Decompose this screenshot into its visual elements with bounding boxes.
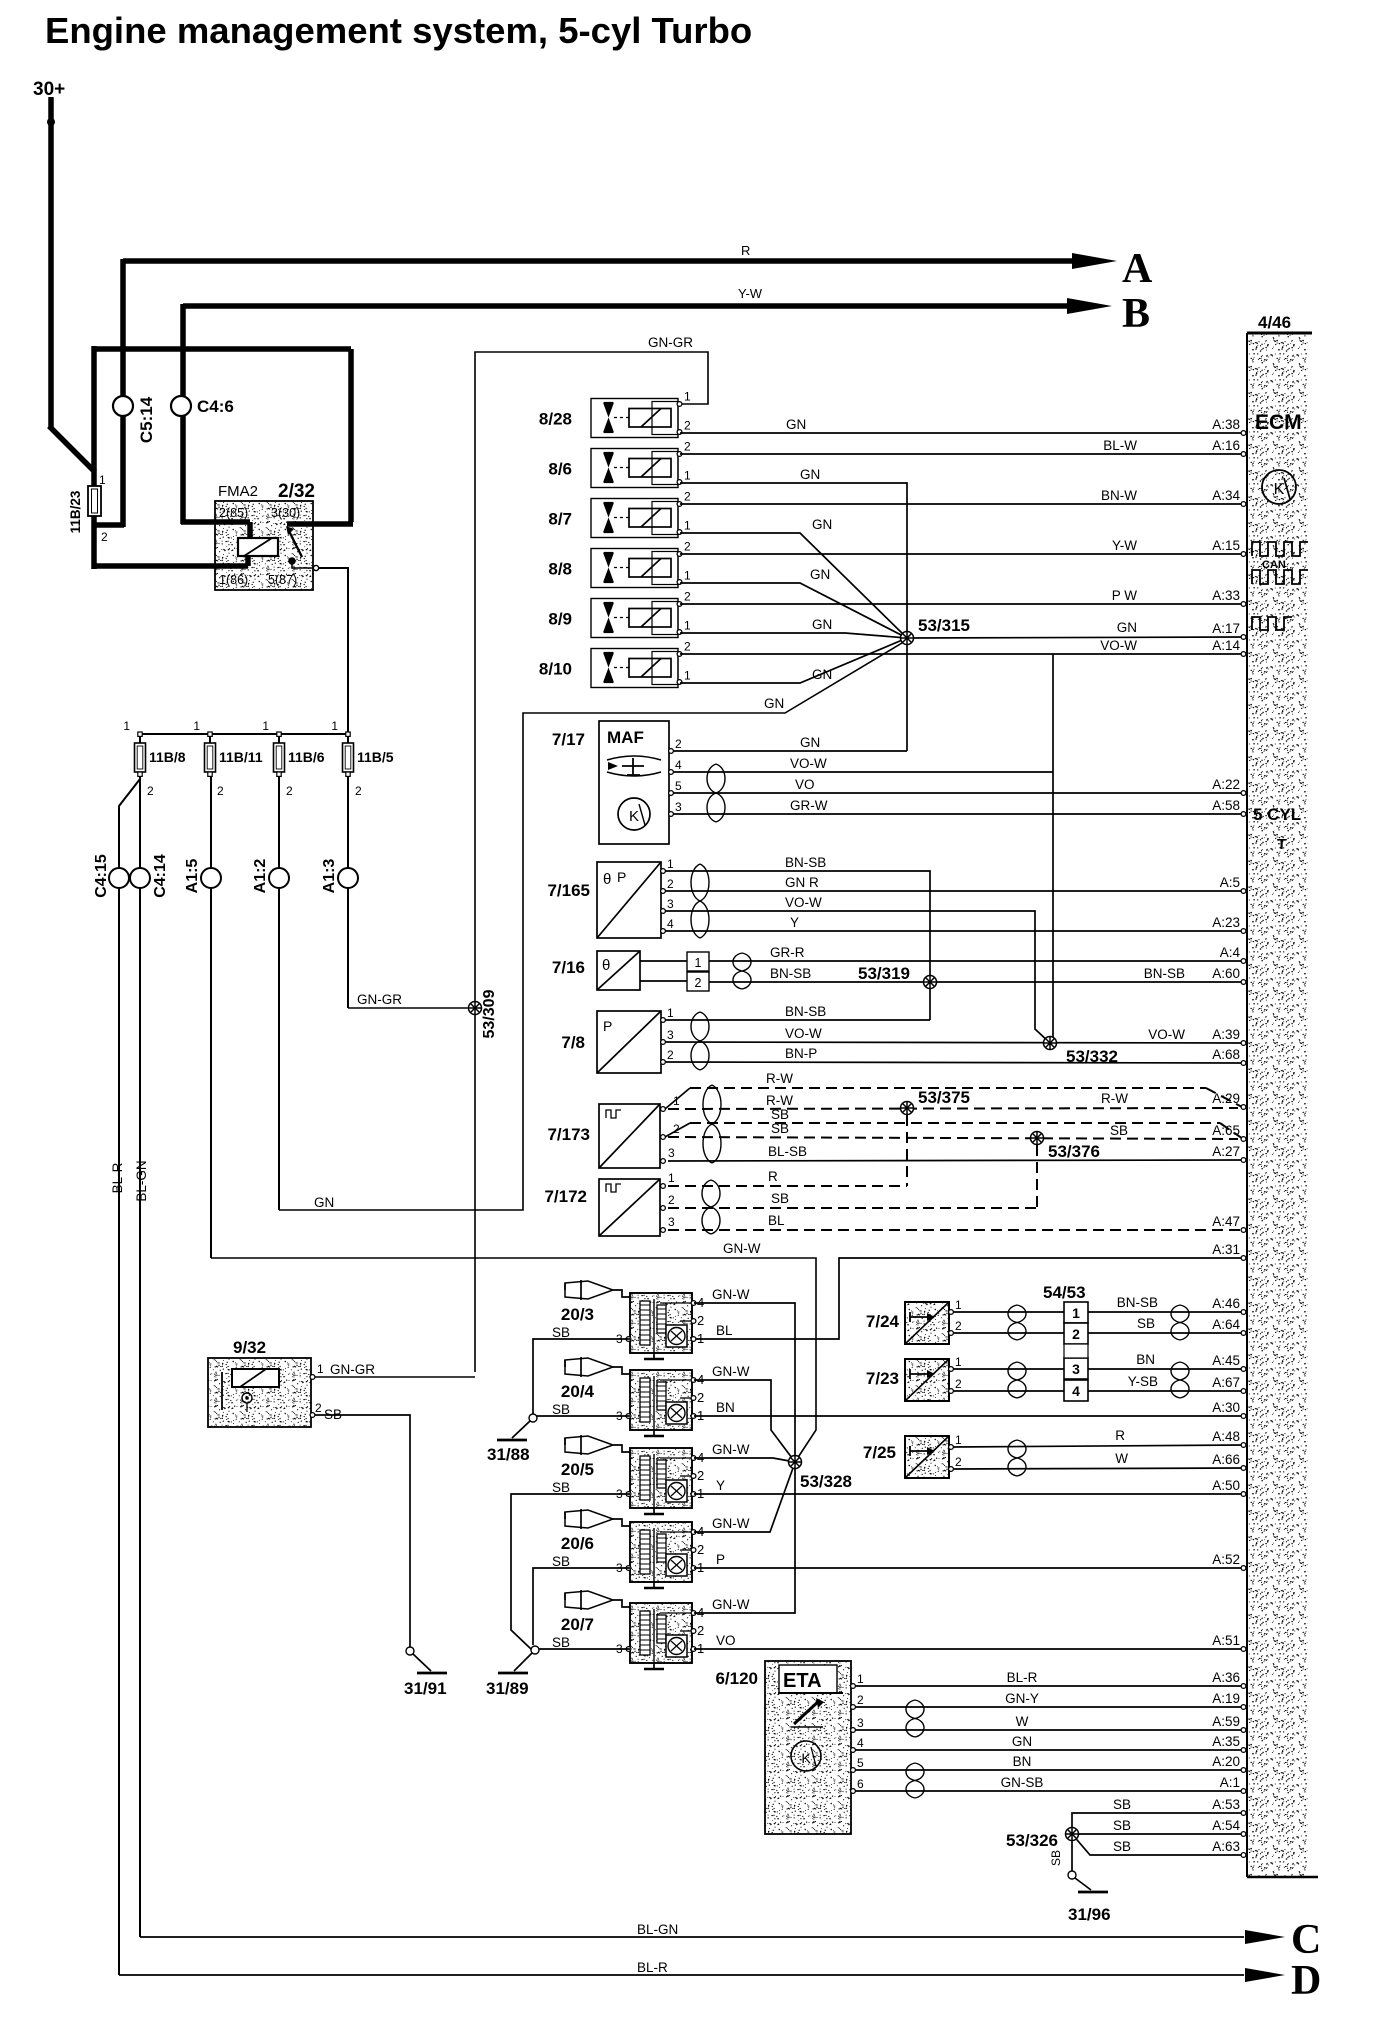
- svg-text:2: 2: [697, 1313, 704, 1328]
- svg-text:1: 1: [1072, 1305, 1080, 1321]
- svg-text:2: 2: [684, 419, 691, 433]
- svg-text:2: 2: [101, 530, 108, 544]
- svg-text:GN-GR: GN-GR: [357, 992, 402, 1007]
- svg-text:11B/8: 11B/8: [149, 749, 186, 765]
- svg-text:Y: Y: [790, 915, 799, 930]
- svg-text:GN: GN: [314, 1195, 334, 1210]
- svg-text:SB: SB: [552, 1554, 570, 1569]
- svg-text:5(87): 5(87): [268, 573, 297, 587]
- svg-text:GN-SB: GN-SB: [1001, 1775, 1044, 1790]
- svg-text:7/173: 7/173: [547, 1125, 590, 1144]
- svg-text:Y-W: Y-W: [738, 286, 763, 301]
- svg-text:53/319: 53/319: [858, 964, 910, 983]
- svg-text:GN: GN: [1012, 1734, 1032, 1749]
- svg-text:A:59: A:59: [1212, 1714, 1240, 1729]
- svg-text:BN-SB: BN-SB: [785, 1004, 826, 1019]
- svg-text:11B/6: 11B/6: [288, 749, 325, 765]
- svg-text:W: W: [1115, 1451, 1128, 1466]
- svg-text:P: P: [716, 1552, 725, 1567]
- svg-text:A:66: A:66: [1212, 1452, 1240, 1467]
- svg-text:C4:6: C4:6: [197, 397, 234, 416]
- svg-text:C: C: [1291, 1917, 1321, 1963]
- svg-text:ECM: ECM: [1255, 411, 1302, 434]
- svg-text:BN-SB: BN-SB: [770, 966, 811, 981]
- svg-text:VO-W: VO-W: [790, 756, 827, 771]
- svg-text:11B/5: 11B/5: [357, 749, 394, 765]
- svg-text:31/89: 31/89: [486, 1679, 529, 1698]
- svg-text:2: 2: [217, 784, 224, 798]
- svg-text:BL-R: BL-R: [1007, 1670, 1038, 1685]
- svg-text:BL: BL: [716, 1323, 733, 1338]
- svg-text:53/326: 53/326: [1006, 1831, 1058, 1850]
- svg-text:2: 2: [697, 1542, 704, 1557]
- svg-text:54/53: 54/53: [1043, 1283, 1086, 1302]
- svg-text:53/315: 53/315: [918, 616, 970, 635]
- svg-text:3: 3: [675, 800, 682, 814]
- svg-text:SB: SB: [1113, 1818, 1131, 1833]
- svg-text:VO-W: VO-W: [1100, 638, 1137, 653]
- svg-text:3: 3: [1072, 1361, 1080, 1377]
- svg-text:A:36: A:36: [1212, 1670, 1240, 1685]
- svg-text:20/3: 20/3: [561, 1305, 594, 1324]
- svg-text:31/91: 31/91: [404, 1679, 447, 1698]
- svg-text:A:31: A:31: [1212, 1242, 1240, 1257]
- svg-text:BL-W: BL-W: [1103, 438, 1137, 453]
- svg-text:1: 1: [331, 719, 338, 733]
- svg-text:4/46: 4/46: [1258, 313, 1291, 332]
- svg-text:SB: SB: [771, 1191, 789, 1206]
- svg-text:Y: Y: [716, 1478, 725, 1493]
- svg-text:3: 3: [668, 1215, 675, 1229]
- svg-text:A:1: A:1: [1220, 1775, 1240, 1790]
- svg-text:R: R: [1115, 1428, 1125, 1443]
- svg-text:4: 4: [667, 917, 674, 931]
- svg-text:3(30): 3(30): [271, 506, 300, 520]
- svg-text:1: 1: [667, 1006, 674, 1020]
- svg-text:2: 2: [697, 1623, 704, 1638]
- svg-text:GN: GN: [812, 517, 832, 532]
- svg-text:1: 1: [697, 1331, 704, 1346]
- svg-text:1: 1: [667, 857, 674, 871]
- svg-text:A1:5: A1:5: [184, 859, 201, 894]
- svg-text:BN-SB: BN-SB: [785, 855, 826, 870]
- svg-text:SB: SB: [771, 1107, 789, 1122]
- svg-text:1: 1: [955, 1298, 962, 1312]
- svg-text:GN: GN: [810, 567, 830, 582]
- svg-text:8/28: 8/28: [539, 410, 572, 429]
- svg-text:R-W: R-W: [766, 1093, 793, 1108]
- svg-text:8/8: 8/8: [548, 560, 572, 579]
- svg-text:A:33: A:33: [1212, 588, 1240, 603]
- svg-text:MAF: MAF: [607, 728, 644, 747]
- svg-text:20/4: 20/4: [561, 1382, 595, 1401]
- svg-text:VO: VO: [716, 1633, 736, 1648]
- svg-text:A:48: A:48: [1212, 1429, 1240, 1444]
- svg-text:Y-W: Y-W: [1112, 538, 1137, 553]
- svg-text:1: 1: [955, 1433, 962, 1447]
- svg-text:GN: GN: [786, 417, 806, 432]
- svg-text:20/7: 20/7: [561, 1615, 594, 1634]
- svg-text:GN-W: GN-W: [712, 1516, 750, 1531]
- svg-text:D: D: [1291, 1958, 1321, 2004]
- svg-text:7/172: 7/172: [544, 1187, 587, 1206]
- svg-text:BL-GN: BL-GN: [134, 1160, 149, 1201]
- svg-text:6: 6: [857, 1777, 864, 1791]
- svg-text:C4:15: C4:15: [93, 854, 110, 898]
- svg-text:1: 1: [317, 1362, 324, 1376]
- svg-text:20/6: 20/6: [561, 1534, 594, 1553]
- svg-text:SB: SB: [1113, 1797, 1131, 1812]
- svg-text:2: 2: [667, 1048, 674, 1062]
- svg-text:GN: GN: [800, 735, 820, 750]
- svg-text:30+: 30+: [33, 79, 65, 100]
- svg-text:2: 2: [684, 640, 691, 654]
- svg-text:GN: GN: [812, 667, 832, 682]
- svg-text:2: 2: [286, 784, 293, 798]
- svg-text:GN-W: GN-W: [723, 1241, 761, 1256]
- svg-text:A:15: A:15: [1212, 538, 1240, 553]
- svg-text:K: K: [801, 1750, 811, 1766]
- svg-text:1: 1: [695, 956, 702, 970]
- svg-text:A:35: A:35: [1212, 1734, 1240, 1749]
- svg-text:A:58: A:58: [1212, 798, 1240, 813]
- svg-text:GN: GN: [764, 696, 784, 711]
- svg-text:1: 1: [193, 719, 200, 733]
- svg-text:A:63: A:63: [1212, 1839, 1240, 1854]
- svg-text:A:22: A:22: [1212, 777, 1240, 792]
- svg-text:2: 2: [355, 784, 362, 798]
- svg-text:A:60: A:60: [1212, 966, 1240, 981]
- svg-text:5 CYL: 5 CYL: [1253, 805, 1301, 824]
- svg-text:GN-W: GN-W: [712, 1364, 750, 1379]
- svg-text:5: 5: [857, 1756, 864, 1770]
- svg-text:GN: GN: [812, 617, 832, 632]
- svg-text:2: 2: [675, 737, 682, 751]
- svg-text:2: 2: [697, 1390, 704, 1405]
- svg-text:A:20: A:20: [1212, 1754, 1240, 1769]
- svg-text:SB: SB: [1110, 1123, 1128, 1138]
- svg-text:2: 2: [667, 877, 674, 891]
- svg-text:BN: BN: [1013, 1754, 1032, 1769]
- svg-text:7/24: 7/24: [866, 1312, 900, 1331]
- svg-text:1: 1: [684, 519, 691, 533]
- svg-text:A:53: A:53: [1212, 1797, 1240, 1812]
- svg-text:2: 2: [684, 590, 691, 604]
- svg-text:R: R: [768, 1169, 778, 1184]
- svg-text:2: 2: [955, 1319, 962, 1333]
- svg-text:SB: SB: [552, 1635, 570, 1650]
- svg-text:2: 2: [697, 1468, 704, 1483]
- svg-text:20/5: 20/5: [561, 1460, 594, 1479]
- svg-text:A:29: A:29: [1212, 1091, 1240, 1106]
- svg-text:ETA: ETA: [783, 1670, 822, 1692]
- svg-text:A:67: A:67: [1212, 1375, 1240, 1390]
- svg-text:A:16: A:16: [1212, 438, 1240, 453]
- svg-text:A:27: A:27: [1212, 1144, 1240, 1159]
- svg-text:31/96: 31/96: [1068, 1905, 1111, 1924]
- svg-text:SB: SB: [771, 1121, 789, 1136]
- svg-text:BN-SB: BN-SB: [1144, 966, 1185, 981]
- svg-text:8/9: 8/9: [548, 610, 572, 629]
- svg-text:3: 3: [668, 1146, 675, 1160]
- svg-text:53/375: 53/375: [918, 1088, 970, 1107]
- svg-text:A:51: A:51: [1212, 1633, 1240, 1648]
- svg-text:1: 1: [684, 469, 691, 483]
- svg-text:GN-W: GN-W: [712, 1287, 750, 1302]
- svg-text:2: 2: [684, 540, 691, 554]
- svg-text:4: 4: [675, 758, 682, 772]
- svg-text:53/309: 53/309: [481, 989, 498, 1038]
- svg-text:1: 1: [857, 1672, 864, 1686]
- svg-text:GN-GR: GN-GR: [330, 1362, 375, 1377]
- svg-text:1: 1: [123, 719, 130, 733]
- svg-text:3: 3: [667, 897, 674, 911]
- svg-text:7/17: 7/17: [552, 730, 585, 749]
- svg-text:GN R: GN R: [785, 875, 819, 890]
- svg-text:2: 2: [668, 1193, 675, 1207]
- svg-text:BL-SB: BL-SB: [768, 1144, 807, 1159]
- svg-text:8/6: 8/6: [548, 460, 572, 479]
- svg-text:A:47: A:47: [1212, 1214, 1240, 1229]
- svg-text:R-W: R-W: [766, 1071, 793, 1086]
- svg-text:GR-W: GR-W: [790, 798, 828, 813]
- svg-text:VO-W: VO-W: [785, 895, 822, 910]
- svg-text:P: P: [603, 1018, 612, 1034]
- svg-text:BL-GN: BL-GN: [637, 1922, 678, 1937]
- svg-text:3: 3: [667, 1028, 674, 1042]
- svg-text:GN-GR: GN-GR: [648, 335, 693, 350]
- svg-text:A:34: A:34: [1212, 488, 1240, 503]
- svg-text:A:52: A:52: [1212, 1552, 1240, 1567]
- svg-text:GN-W: GN-W: [712, 1597, 750, 1612]
- svg-text:9/32: 9/32: [233, 1338, 266, 1357]
- svg-text:SB: SB: [1113, 1839, 1131, 1854]
- svg-text:BL-R: BL-R: [637, 1960, 668, 1975]
- svg-text:1: 1: [262, 719, 269, 733]
- svg-text:Y-SB: Y-SB: [1128, 1374, 1158, 1389]
- svg-text:P W: P W: [1112, 588, 1138, 603]
- svg-text:θ: θ: [603, 871, 611, 888]
- svg-text:θ: θ: [602, 957, 610, 974]
- svg-text:BN-P: BN-P: [785, 1046, 817, 1061]
- svg-text:BN-W: BN-W: [1101, 488, 1137, 503]
- svg-text:1: 1: [684, 669, 691, 683]
- svg-text:A:14: A:14: [1212, 638, 1240, 653]
- svg-text:SB: SB: [552, 1402, 570, 1417]
- svg-text:GN-Y: GN-Y: [1005, 1691, 1039, 1706]
- svg-text:SB: SB: [1137, 1316, 1155, 1331]
- svg-text:FMA2: FMA2: [218, 483, 258, 500]
- svg-text:P: P: [617, 869, 626, 885]
- svg-text:GR-R: GR-R: [770, 945, 805, 960]
- svg-text:8/7: 8/7: [548, 510, 572, 529]
- svg-text:2: 2: [147, 784, 154, 798]
- svg-text:A:23: A:23: [1212, 915, 1240, 930]
- svg-text:BL: BL: [768, 1213, 785, 1228]
- svg-text:GN-W: GN-W: [712, 1442, 750, 1457]
- svg-text:A:19: A:19: [1212, 1691, 1240, 1706]
- svg-text:7/23: 7/23: [866, 1369, 899, 1388]
- svg-text:VO-W: VO-W: [1148, 1027, 1185, 1042]
- svg-text:VO: VO: [795, 777, 815, 792]
- svg-text:1: 1: [99, 473, 106, 487]
- svg-text:2(85): 2(85): [219, 506, 248, 520]
- svg-text:4: 4: [857, 1736, 864, 1750]
- svg-text:A:5: A:5: [1220, 875, 1240, 890]
- svg-text:1: 1: [684, 569, 691, 583]
- svg-text:A:65: A:65: [1212, 1123, 1240, 1138]
- svg-text:BN: BN: [1136, 1352, 1155, 1367]
- svg-text:2: 2: [315, 1401, 322, 1415]
- svg-text:7/165: 7/165: [547, 881, 590, 900]
- svg-text:BN-SB: BN-SB: [1117, 1295, 1158, 1310]
- svg-text:6/120: 6/120: [715, 1669, 758, 1688]
- svg-text:3: 3: [857, 1716, 864, 1730]
- svg-text:K: K: [629, 808, 639, 825]
- svg-text:BN: BN: [716, 1400, 735, 1415]
- svg-text:SB: SB: [552, 1480, 570, 1495]
- svg-text:R: R: [741, 243, 750, 258]
- svg-text:A:39: A:39: [1212, 1027, 1240, 1042]
- svg-text:A:17: A:17: [1212, 621, 1240, 636]
- svg-text:2: 2: [955, 1455, 962, 1469]
- svg-text:8/10: 8/10: [539, 660, 572, 679]
- svg-text:7/16: 7/16: [552, 958, 585, 977]
- svg-text:A:30: A:30: [1212, 1400, 1240, 1415]
- svg-text:A:46: A:46: [1212, 1296, 1240, 1311]
- svg-text:W: W: [1016, 1714, 1029, 1729]
- svg-text:T: T: [1277, 836, 1286, 853]
- svg-text:A1:3: A1:3: [321, 859, 338, 894]
- svg-text:R-W: R-W: [1101, 1091, 1128, 1106]
- svg-text:A:54: A:54: [1212, 1818, 1240, 1833]
- svg-text:53/328: 53/328: [800, 1472, 852, 1491]
- svg-text:GN: GN: [800, 467, 820, 482]
- svg-text:BL-R: BL-R: [110, 1162, 125, 1193]
- svg-text:A:38: A:38: [1212, 417, 1240, 432]
- svg-text:1: 1: [684, 390, 691, 404]
- svg-text:C5:14: C5:14: [137, 396, 156, 443]
- svg-text:2: 2: [684, 440, 691, 454]
- svg-text:K: K: [1274, 481, 1285, 498]
- svg-text:11B/11: 11B/11: [219, 749, 263, 765]
- svg-text:1(86): 1(86): [219, 573, 248, 587]
- svg-text:2: 2: [684, 490, 691, 504]
- svg-text:GN: GN: [1117, 620, 1137, 635]
- svg-text:5: 5: [675, 779, 682, 793]
- svg-text:2: 2: [955, 1377, 962, 1391]
- svg-text:A:50: A:50: [1212, 1478, 1240, 1493]
- svg-text:2: 2: [1072, 1326, 1080, 1342]
- svg-text:7/8: 7/8: [561, 1033, 585, 1052]
- svg-text:4: 4: [1072, 1383, 1080, 1399]
- svg-text:7/25: 7/25: [863, 1443, 896, 1462]
- svg-text:Engine management system, 5-cy: Engine management system, 5-cyl Turbo: [45, 10, 752, 51]
- svg-text:A1:2: A1:2: [252, 859, 269, 894]
- svg-text:1: 1: [684, 619, 691, 633]
- svg-text:31/88: 31/88: [487, 1445, 530, 1464]
- svg-text:1: 1: [668, 1171, 675, 1185]
- svg-text:A: A: [1122, 246, 1153, 292]
- svg-text:A:68: A:68: [1212, 1047, 1240, 1062]
- svg-text:53/332: 53/332: [1066, 1047, 1118, 1066]
- svg-text:VO-W: VO-W: [785, 1026, 822, 1041]
- svg-text:C4:14: C4:14: [152, 854, 169, 898]
- svg-text:1: 1: [955, 1355, 962, 1369]
- svg-text:B: B: [1122, 291, 1150, 337]
- svg-text:A:45: A:45: [1212, 1353, 1240, 1368]
- svg-text:2: 2: [695, 976, 702, 990]
- svg-text:53/376: 53/376: [1048, 1142, 1100, 1161]
- svg-text:SB: SB: [1049, 1850, 1063, 1866]
- svg-text:SB: SB: [552, 1325, 570, 1340]
- svg-text:A:4: A:4: [1220, 945, 1241, 960]
- svg-text:2: 2: [857, 1693, 864, 1707]
- svg-text:2/32: 2/32: [278, 481, 315, 502]
- svg-text:A:64: A:64: [1212, 1317, 1240, 1332]
- svg-text:11B/23: 11B/23: [68, 490, 83, 533]
